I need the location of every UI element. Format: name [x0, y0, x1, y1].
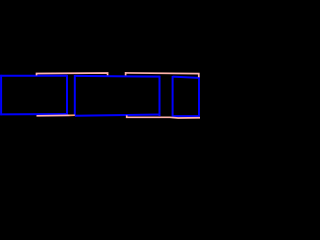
wire: blue trace pulse 3 left edge: [172, 76, 174, 117]
wire: pink trace upper rail segment A with end ticks: [37, 73, 108, 75]
wire: blue trace pulse 2 left edge: [74, 75, 76, 116]
wire: blue trace pulse 1 right edge: [66, 75, 68, 115]
wire: orange overlap segment between pulse 1 and pulse 2: [70, 114, 75, 116]
wire: blue trace pulse 3 bottom rail: [173, 115, 199, 117]
wire: blue trace pulse 1 left edge: [0, 75, 2, 116]
wire: pink trace upper rail segment B with end ticks: [126, 73, 199, 77]
wire: blue trace pulse 2 right edge: [159, 76, 161, 116]
wire: blue trace pulse 2 bottom rail: [75, 115, 160, 116]
wire: blue trace pulse 1 top rail: [0, 75, 67, 77]
wire: pink trace lower rail segment A: [37, 114, 70, 116]
wire: blue trace pulse 3 top rail: [173, 77, 199, 78]
wire: pink trace lower rail segment B with start tick: [127, 115, 200, 118]
wire: blue trace pulse 3 right edge: [198, 77, 200, 117]
wire: blue trace pulse 2 top rail: [75, 75, 160, 78]
wire: blue trace pulse 1 bottom rail: [0, 113, 67, 115]
